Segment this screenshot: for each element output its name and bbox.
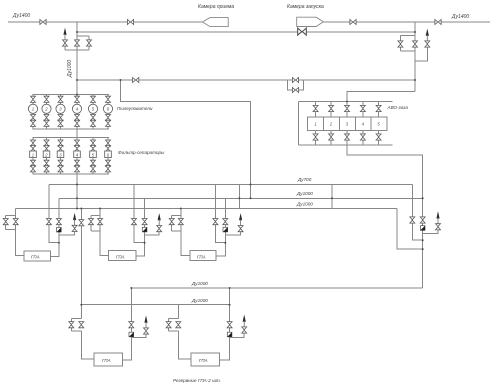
valve FS1 top1 [31,140,36,146]
valve FS5 top1 [91,140,96,146]
valve U2 discharge [142,219,147,225]
valve DC5 top [91,96,96,102]
dust collector 6 circle [103,104,112,113]
FS branch 3 stem [60,138,62,174]
svg-text:Пылеуловители: Пылеуловители [117,106,153,111]
valve FS3 bot2 [58,166,63,172]
check valve U2 [142,227,147,232]
wire U2 suction bypass bottom connector [91,230,100,232]
valve AVO3 bottom [345,134,350,140]
svg-text:Ду1400: Ду1400 [12,13,30,19]
vent arrow U1 [73,213,76,225]
AVO stem 2 [330,102,332,146]
check valve R2 [227,332,232,337]
svg-text:АВО-газа: АВО-газа [387,105,409,110]
svg-text:Ду1400: Ду1400 [451,14,469,20]
valve U2 suction left [89,219,94,225]
valve U1 vent [72,225,77,231]
wire FS outlet riser to L3 [76,174,78,209]
valve right A-riser [410,217,415,223]
valve U3 suction right [178,219,183,225]
AVO stem 3 [346,102,348,146]
valve AVO2 top [329,105,334,111]
wire DC riser to FS [76,129,78,138]
valve U1 suction left [3,219,8,225]
wire U1 vent branch [59,231,75,234]
AVO stem 1 [315,102,317,146]
valve K2 on inlet line [127,20,133,25]
vent arrow R2 [243,315,246,327]
wire R1 drop to box [81,331,94,359]
vent arrow U3 [239,213,242,225]
wire bottom line B2 [81,304,229,306]
wire U2 suction bypass top connector [91,214,100,216]
valve main outlet [413,41,418,47]
wire U2 suction bypass left stem [90,215,92,231]
valve DC1 top [31,96,36,102]
valve FS6 bot1 [106,160,111,166]
wire bypass top connector [77,35,89,37]
DC branch 4 stem [76,95,78,129]
valve R2 discharge [227,322,232,328]
wire bypass right stem [88,36,90,50]
valve AVO5 bottom [376,134,381,140]
wire U3 suction bypass top connector [172,214,181,216]
FS branch 4 stem [76,138,78,174]
wire FS top manifold [33,137,110,139]
valve DC2 bottom [44,120,49,126]
valve U2 vent [157,226,162,232]
wire U1 suction bypass bottom connector [6,229,16,231]
valve bypass right cluster [398,41,403,47]
valve DC5 mid [91,115,96,121]
valve FS1 bot1 [31,160,36,166]
valve U3 vent [238,226,243,232]
valve AVO5 top [376,105,381,111]
valve FS4 top2 [75,146,80,152]
valve R2 bypass left [166,322,171,328]
wire R2 suction drop from B2 [177,305,179,319]
wire right vent branch [423,230,438,234]
AVO stem 4 [362,102,364,146]
wire DC bottom manifold [33,128,110,130]
check valve R1 [129,332,134,337]
dust collector 1 circle [28,104,37,113]
GPA U1 box [24,251,50,261]
GPA U3 box [190,251,216,261]
AVO unit row box [308,117,388,131]
wire U1 A-riser from L1 [49,185,59,243]
valve FS4 bot1 [75,160,80,166]
valve AVO1 bottom [313,134,318,140]
valve FS5 top2 [91,146,96,152]
wire R1 vent branch [131,334,146,338]
valve K5 large on second line [298,28,307,35]
svg-text:ГПА: ГПА [116,254,125,259]
wire R2 drop to box [178,331,191,359]
pig receiver chamber [203,18,229,27]
svg-text:Камера приема: Камера приема [198,4,234,10]
valve K1 on inlet line [40,20,46,25]
wire main inlet riser x77 [76,22,78,95]
wire bypass top connector right [400,35,415,37]
wire bypass bottom connector [65,49,89,51]
GPA U2 box [108,251,136,261]
GPA R2 box [191,353,219,366]
valve AVO2 bottom [329,134,334,140]
vent arrow left inlet [63,28,66,40]
DC branch 6 stem [107,95,109,129]
wire vent branch right [415,47,427,61]
wire DC top manifold [33,94,110,96]
valve DC3 top [58,96,63,102]
svg-text:Ду1000: Ду1000 [296,191,313,196]
wire U3 discharge from box [216,198,225,256]
pig launcher chamber [297,17,324,26]
DC branch 2 stem [46,95,48,129]
svg-text:1: 1 [32,106,34,111]
wire L3 right end drop [397,209,423,250]
wire R1 bypass top connector [71,317,81,319]
svg-text:1: 1 [32,152,34,157]
wire AVO left downcomer [298,102,300,146]
dust collector 5 circle [88,104,97,113]
valve K4 on outlet line [435,20,441,25]
wire collector L2 Ду1000 [59,197,423,199]
AVO stem 5 [378,102,380,146]
valve U1 discharge [56,219,61,225]
DC branch 3 stem [60,95,62,129]
valve DC1 bottom [31,120,36,126]
svg-text:Ду1000: Ду1000 [191,298,208,303]
wire R2 bypass top connector [169,317,179,319]
FS branch 5 stem [92,138,94,174]
valve R1 suction riser [79,220,84,226]
valve R2 vent [242,327,247,333]
wire FS bottom manifold [33,173,110,175]
wire main outlet riser x415 [414,22,416,92]
filter separator 6 box [105,151,112,158]
valve FS3 top1 [58,140,63,146]
FS branch 6 stem [107,138,109,174]
wire to AVO inlet [347,92,415,102]
valve FS3 top2 [58,146,63,152]
svg-text:Фильтр-сепараторы: Фильтр-сепараторы [118,150,165,155]
wire R1 suction riser from L3 [80,209,82,319]
valve U2 suction right [98,219,103,225]
wire right A-riser from L1 [412,185,422,241]
wire jumper L1-L3 at x332 [331,185,333,209]
dust collector 4 circle [72,104,81,113]
wire U3 vent branch [225,232,240,235]
valve vent left [63,40,68,46]
AVO cell dividers [324,117,372,131]
DC branch 1 stem [32,95,34,129]
valve U1 suction right [13,219,18,225]
valve DC4 bottom [75,120,80,126]
wire U2 A-riser from L1 [134,185,145,243]
filter separator 4 box [74,151,81,158]
valve U3 suction left [169,219,174,225]
svg-text:Ду1000: Ду1000 [296,202,313,207]
valve FS2 top2 [44,146,49,152]
valve R1 vent [144,328,149,334]
valve bypass right [87,40,92,46]
valve U1 A-riser [46,219,51,225]
svg-text:ГПА: ГПА [102,358,111,363]
wire U1 suction bypass left stem [5,215,7,229]
dust collector 2 circle [42,104,51,113]
junction dots [76,31,78,33]
svg-text:Ду700: Ду700 [297,177,312,182]
valve FS2 top1 [44,140,49,146]
wire R1 bypass left stem [70,318,72,331]
valve small bypass lower [292,88,298,93]
valve FS5 bot1 [91,160,96,166]
wire bypass left stem right [399,36,401,51]
wire jumper L1-L3 at x239 [238,185,240,209]
check valve U1 [57,227,62,232]
wire main inlet line y22 [8,21,203,23]
wire AVO top manifold [299,101,393,103]
valve FS4 bot2 [75,166,80,172]
valve main inlet [75,40,80,46]
valve DC2 mid [44,115,49,121]
valve R2 bypass right [176,322,181,328]
valve AVO3 top [345,105,350,111]
wire U2 suction drop from L3 [100,209,108,256]
FS branch 1 stem [32,138,34,174]
wire collector L1 Ду700 [49,184,412,186]
valve FS2 bot2 [44,166,49,172]
FS branch 2 stem [46,138,48,174]
valve DC5 bottom [91,120,96,126]
valve AVO4 top [360,105,365,111]
check valve U3 [223,227,228,232]
filter separator 2 box [43,151,50,158]
valve DC4 mid [75,115,80,121]
valve U2 A-riser [132,219,137,225]
filter separator 5 box [90,151,97,158]
valve R1 bypass left [69,322,74,328]
valve AVO1 top [313,105,318,111]
valve FS4 top1 [75,140,80,146]
filter separator 3 box [57,151,64,158]
wire bypass line y80 [77,79,415,81]
valve DC1 mid [31,115,36,121]
svg-text:1: 1 [314,122,316,127]
vent arrow right cluster [436,211,439,223]
wire R2 bypass bottom connector [169,330,179,332]
wire R1 bypass bottom connector [71,330,81,332]
valve FS6 top2 [106,146,111,152]
check valve right B-riser [420,226,425,231]
GPA R1 box [94,353,122,366]
wire R2 vent branch [230,333,245,338]
wire AVO outlet [347,145,423,198]
wire right B-riser [422,198,424,287]
wire U3 suction bypass bottom connector [172,230,181,232]
valve FS3 bot1 [58,160,63,166]
valve DC4 top [75,96,80,102]
valve DC2 top [44,96,49,102]
svg-text:ГПА: ГПА [197,254,206,259]
vent arrow U2 [158,213,161,225]
valve right B-riser [420,217,425,223]
valve U3 discharge [223,219,228,225]
valve FS1 bot2 [31,166,36,172]
wire U1 suction bypass top connector [6,214,16,216]
valve R1 discharge [129,322,134,328]
wire vent stem left [64,40,66,50]
wire U1 discharge from box [51,198,59,256]
wire small bypass loop drops [288,80,304,90]
valve DC3 bottom [58,120,63,126]
valve FS1 top2 [31,146,36,152]
valve FS2 bot1 [44,160,49,166]
valve FS5 bot2 [91,166,96,172]
svg-text:ГПА: ГПА [199,358,208,363]
wire U3 A-riser from L1 [215,185,225,243]
vent arrow right outlet [426,29,429,41]
svg-text:Камера запуска: Камера запуска [287,4,324,10]
svg-text:Ду1000: Ду1000 [67,60,73,78]
svg-text:Ду1000: Ду1000 [191,281,208,286]
wire collector L3 Ду1000 suction [16,208,397,210]
valve DC3 mid [58,115,63,121]
valve DC6 mid [106,115,111,121]
DC branch 5 stem [92,95,94,129]
wire R2 bypass left stem [168,318,170,331]
valve on bypass line [133,78,139,83]
valve R1 bypass right [79,322,84,328]
valve DC6 bottom [106,120,111,126]
valve vent right [425,41,430,47]
valve DC6 top [106,96,111,102]
wire U2 vent branch [145,232,160,235]
wire U1 suction drop from L3 [16,209,24,256]
wire AVO bottom manifold [299,144,393,146]
wire bypass bottom connector right [400,50,415,52]
valve FS6 bot2 [106,166,111,172]
wire R2 discharge riser [219,288,229,360]
valve K3 on outlet line [350,20,356,25]
vent arrow R1 [144,316,147,328]
svg-text:ГПА: ГПА [31,255,40,260]
wire second line y32 [77,31,415,33]
wire outlet line y22 [323,21,490,23]
valve small bypass upper [292,78,298,83]
wire AVO feed tap [121,80,251,198]
wire U2 discharge from box [136,198,144,256]
valve right vent [436,224,441,230]
filter separator 1 box [30,151,37,158]
valve FS6 top1 [106,140,111,146]
wire U3 suction bypass left stem [171,215,173,231]
wire U3 suction drop from L3 [181,209,190,256]
wire R1 discharge riser [122,288,131,360]
valve U3 A-riser [213,219,218,225]
svg-text:Резервные ГПА-2 шт.: Резервные ГПА-2 шт. [173,378,221,383]
wire bottom line B1 [131,287,423,289]
valve AVO4 bottom [360,134,365,140]
dust collector 3 circle [56,104,65,113]
